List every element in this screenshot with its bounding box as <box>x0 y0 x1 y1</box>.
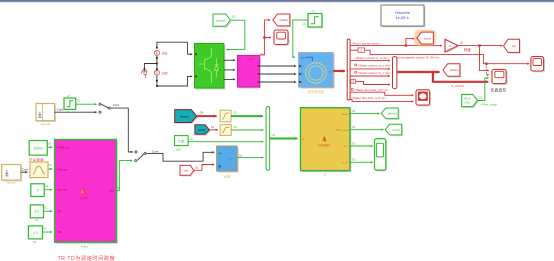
svg-text:-K-: -K- <box>448 45 451 48</box>
svg-text:0: 0 <box>37 189 39 193</box>
constant 0 <box>31 184 49 197</box>
svg-text:Vabc: Vabc <box>247 57 254 61</box>
DC source Ud2 <box>154 70 168 75</box>
node wm junction <box>405 44 407 46</box>
svg-text:Ud1: Ud1 <box>162 51 168 55</box>
wire phis_d <box>350 92 413 95</box>
svg-text:0.85: 0.85 <box>178 139 184 143</box>
svg-text:B: B <box>239 68 241 72</box>
svg-text:O2: O2 <box>272 133 276 137</box>
wire filter2 to mux <box>231 129 263 131</box>
wire 0.85 to mux <box>188 141 263 143</box>
svg-text:[Isabc]: [Isabc] <box>450 68 459 72</box>
wire mux out thick <box>397 71 431 73</box>
wire 0.2TD to magenta <box>43 231 53 233</box>
svg-text:230v: 230v <box>464 101 470 105</box>
svg-text:C: C <box>239 77 241 81</box>
wire pluse to bridge gate <box>226 20 245 49</box>
wire ramp to magenta <box>48 168 52 170</box>
svg-text:pulse: pulse <box>342 112 349 116</box>
svg-text:<Stator flux phis_d (V s)>: <Stator flux phis_d (V s)> <box>354 88 389 92</box>
node speed junction <box>478 44 480 46</box>
wire mux to Control <box>270 133 298 138</box>
svg-text:Control: Control <box>318 143 330 147</box>
manual switch 1 <box>101 103 119 109</box>
constant 10000 <box>29 141 52 163</box>
node Te junction <box>485 63 487 65</box>
svg-text:TD: TD <box>33 240 37 244</box>
svg-text:S-fun: S-fun <box>81 245 89 249</box>
Vabc measurement block <box>238 53 265 89</box>
mux currents <box>393 57 397 89</box>
svg-text:<Rotor speed (wm)>: <Rotor speed (wm)> <box>352 42 380 46</box>
wire 0 to magenta <box>44 189 52 191</box>
svg-text:speed1: speed1 <box>40 122 50 126</box>
svg-text:TR:TD为调速时间跨度: TR:TD为调速时间跨度 <box>58 254 116 261</box>
svg-text:Discrete: Discrete <box>395 10 410 15</box>
ASR controller <box>217 146 243 179</box>
svg-text:<Stator current is_b (A)>: <Stator current is_b (A)> <box>357 64 391 68</box>
wire is_a <box>350 60 390 62</box>
toolbar bottom edge <box>0 0 554 2</box>
goto [wm] selected glow <box>413 29 437 48</box>
svg-text:O2: O2 <box>352 141 356 145</box>
svg-text:[Isabc]: [Isabc] <box>180 114 189 118</box>
constant 0.2 TD <box>28 226 47 244</box>
asynchronous machine <box>299 53 335 94</box>
svg-text:Pul: Pul <box>109 189 114 193</box>
svg-text:[Flux]: [Flux] <box>464 97 471 101</box>
svg-text:A: A <box>301 65 303 69</box>
svg-text:Cont: Cont <box>57 108 64 112</box>
svg-text:O2: O2 <box>352 109 356 113</box>
wire phis_q <box>350 99 414 101</box>
svg-text:[Vabc]: [Vabc] <box>280 18 288 22</box>
svg-text:B: B <box>219 68 221 72</box>
svg-text:is_abc(A): is_abc(A) <box>451 84 464 88</box>
svg-text:D4: D4 <box>200 111 204 115</box>
filter block 1 <box>220 110 237 122</box>
wire speed1 to switch1 <box>55 108 102 114</box>
wire filter1 to mux thick <box>231 115 263 117</box>
junction dot <box>263 36 265 38</box>
ground tee wire <box>144 64 157 70</box>
scope sim waveform <box>490 69 507 92</box>
svg-text:C: C <box>301 80 303 84</box>
wire Te with label box <box>350 48 529 64</box>
goto [Vabc] <box>273 14 291 27</box>
wire to goto wm <box>406 39 415 46</box>
svg-text:ASR: ASR <box>224 175 231 179</box>
from [Flux]230v <box>462 94 498 108</box>
svg-text:O2: O2 <box>479 95 483 99</box>
wire unnamed to mux <box>350 80 390 85</box>
svg-text:speed: speed <box>7 181 16 185</box>
svg-text:0.2: 0.2 <box>35 210 40 214</box>
svg-text:D2: D2 <box>232 14 236 18</box>
svg-text:D2: D2 <box>239 153 243 157</box>
svg-text:[w]: [w] <box>184 169 188 173</box>
from [w] <box>180 165 199 176</box>
svg-text:O2: O2 <box>233 125 237 129</box>
svg-text:D1: D1 <box>303 22 307 26</box>
ground <box>141 71 147 77</box>
svg-text:PWM_fre: PWM_fre <box>57 146 69 150</box>
wire switch1 down to switch2 <box>111 108 138 153</box>
svg-text:仿真波形: 仿真波形 <box>490 88 506 93</box>
wire 10000 to magenta <box>47 146 52 148</box>
svg-text:Fre_set: Fre_set <box>57 167 67 171</box>
wire Isabc to filter1 <box>197 115 217 117</box>
goto [Isabc] <box>443 64 461 78</box>
wire speed to sim scope <box>480 46 489 71</box>
wire 0.2TR to magenta <box>44 210 53 212</box>
svg-text:转速: 转速 <box>464 47 471 52</box>
from [pluse] top <box>213 14 236 28</box>
powergui block <box>381 5 425 27</box>
wire w to ASR in2 <box>194 165 214 171</box>
wire switch2 to ASR in1 <box>147 152 215 161</box>
step w* <box>64 94 81 109</box>
gain K <box>445 39 471 53</box>
DC source Ud1 <box>154 50 168 55</box>
wire control phis out <box>350 125 384 130</box>
wire is_abc to sim scope <box>433 72 488 82</box>
svg-text:B: B <box>301 72 303 76</box>
svg-text:D1: D1 <box>195 166 199 170</box>
filter block 2 <box>220 125 237 136</box>
annotation TR TD <box>58 254 116 261</box>
svg-text:2: 2 <box>324 173 326 177</box>
svg-text:Ud2: Ud2 <box>162 71 168 75</box>
manual switch 2 <box>138 150 159 161</box>
svg-text:w*: w* <box>218 151 221 155</box>
constant 0.85 <box>175 136 194 152</box>
Control MATLAB function block <box>301 108 352 177</box>
node isabc junction <box>432 71 435 74</box>
svg-text:TL: TL <box>312 10 316 14</box>
svg-text:[w]: [w] <box>512 44 516 48</box>
scope Te far right <box>531 57 545 73</box>
goto [pluse] bottom <box>381 108 399 120</box>
svg-text:0.2: 0.2 <box>33 231 38 235</box>
step TL <box>303 10 324 29</box>
mux control inputs <box>266 107 270 171</box>
wire control pulse out <box>350 109 380 114</box>
scope Vabc <box>274 30 289 46</box>
svg-text:O2: O2 <box>352 125 356 129</box>
svg-text:TR: TR <box>34 219 38 223</box>
svg-text:<Electromagnetic torque Te (N*: <Electromagnetic torque Te (N*m)> <box>391 55 440 59</box>
ramp block <box>30 162 52 178</box>
svg-text:O2: O2 <box>233 111 237 115</box>
wire between sources <box>156 56 158 70</box>
magenta S-function block <box>55 140 121 249</box>
svg-text:TR: TR <box>57 209 61 213</box>
svg-text:<Stator flux phis_q (V s)>: <Stator flux phis_q (V s)> <box>351 96 386 100</box>
goto [w] <box>504 39 521 53</box>
wire is_b <box>350 68 390 70</box>
svg-text:异步电动机: 异步电动机 <box>308 89 325 94</box>
wire ASR to mux <box>237 157 263 159</box>
wire control k_sT out <box>350 158 373 163</box>
svg-text:k_s: k_s <box>344 144 349 148</box>
universal bridge U1 <box>195 44 226 90</box>
svg-text:Phis_mag: Phis_mag <box>336 128 349 132</box>
dashed wire Te to sim scope <box>486 64 489 75</box>
wire gain to goto w <box>458 45 503 47</box>
svg-text:k_sT: k_sT <box>342 160 348 164</box>
svg-text:A: A <box>239 59 241 63</box>
from [Vabc] lower <box>195 125 215 136</box>
wire Vabc top output up to goto <box>259 20 270 55</box>
wire flux to sim scope <box>478 78 489 101</box>
svg-text:TD: TD <box>57 230 61 234</box>
wire speed to ramp <box>21 167 28 172</box>
wires bridge to Vabc <box>224 59 235 61</box>
svg-text:[Flux]: [Flux] <box>393 128 400 132</box>
label rotor speed <box>352 42 380 46</box>
svg-text:<Stator current is_a (A)>: <Stator current is_a (A)> <box>355 56 389 60</box>
wire step to switch1 <box>76 103 102 106</box>
scope k_s green <box>375 139 388 172</box>
svg-text:C: C <box>219 78 221 82</box>
label Te <box>391 55 440 59</box>
svg-text:10000: 10000 <box>34 147 43 151</box>
svg-text:S_Fun: S_Fun <box>80 196 88 200</box>
wire branch to scope1 <box>264 37 271 39</box>
svg-text:[pluse]: [pluse] <box>388 112 397 116</box>
svg-text:[Vabc]: [Vabc] <box>198 128 206 132</box>
wire magenta pulse out to switch2 <box>116 159 137 190</box>
svg-text:1e-05 s.: 1e-05 s. <box>395 15 409 20</box>
svg-text:O1: O1 <box>460 40 464 44</box>
svg-text:Tm: Tm <box>301 56 306 60</box>
svg-text:Cont: Cont <box>113 103 120 107</box>
svg-text:D1: D1 <box>211 125 215 129</box>
signal builder speed <box>2 165 23 185</box>
wire machine m to bus selector <box>333 70 345 72</box>
wire is_c <box>350 75 390 77</box>
svg-text:wm_set: wm_set <box>57 188 67 192</box>
XY graph scope <box>416 90 431 107</box>
wire control k_s out <box>350 141 373 146</box>
svg-text:[wm]: [wm] <box>424 36 430 40</box>
svg-text:A: A <box>219 58 221 62</box>
wire rotor speed <box>350 45 442 47</box>
svg-text:Cont: Cont <box>22 167 29 171</box>
junction dots power rail <box>144 47 158 87</box>
signal builder speed1 <box>36 104 56 127</box>
goto [Flux] <box>385 124 403 136</box>
wire Ud1 top to bridge input 1 <box>157 42 192 54</box>
svg-text:[pluse]: [pluse] <box>217 18 226 22</box>
svg-text:<Phis_mag>: <Phis_mag> <box>480 102 497 106</box>
wire to goto Isabc <box>433 71 440 73</box>
bus selector <box>347 39 350 100</box>
wires Vabc to machine <box>260 65 297 67</box>
wire Ud2 bottom to bridge input 2 <box>157 76 192 86</box>
wire TL to machine Tm <box>293 20 308 57</box>
wire Vabc to filter2 <box>209 129 217 131</box>
from [Isabc] <box>175 110 204 124</box>
svg-text:<Stator current is_c (A)>: <Stator current is_c (A)> <box>357 71 391 75</box>
constant 0.2 TR <box>30 205 48 223</box>
svg-text:O2: O2 <box>352 158 356 162</box>
